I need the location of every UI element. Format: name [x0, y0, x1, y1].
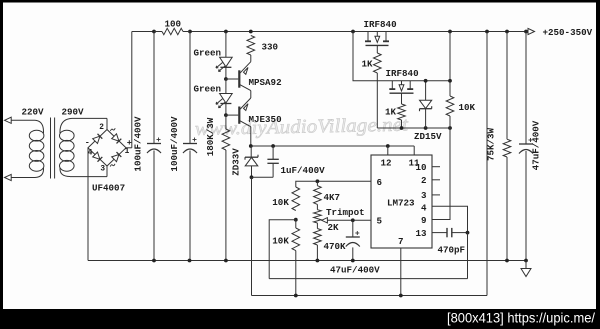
svg-text:1: 1 [125, 148, 130, 156]
wire ground rail [88, 260, 526, 262]
resistor 10K (right) [446, 96, 454, 116]
wire pin 12 stub [387, 146, 389, 155]
wire secondary-bottom to bridge [70, 176, 107, 178]
svg-text:7: 7 [398, 236, 404, 247]
svg-text:5: 5 [377, 216, 383, 227]
wire node to 180K [225, 115, 227, 129]
node 10K-lower bottom [294, 294, 298, 298]
svg-text:10K: 10K [272, 197, 289, 208]
svg-text:LM723: LM723 [387, 197, 415, 208]
resistor 75K/3W [502, 138, 504, 140]
svg-text:3: 3 [100, 166, 105, 174]
svg-text:100uF/400V: 100uF/400V [169, 116, 180, 172]
transformer T1 primary winding (220V) [29, 130, 44, 141]
node 10K bottom [448, 126, 452, 130]
svg-text:290V: 290V [62, 107, 85, 118]
resistor 1K (M1 gate) [374, 53, 382, 73]
svg-text:1K: 1K [362, 59, 374, 70]
wire 180K to ground rail [225, 150, 227, 261]
ground symbol [525, 261, 527, 269]
svg-text:47uF/400V: 47uF/400V [531, 120, 542, 170]
wire feedback drop x467 [467, 233, 469, 279]
resistor 180K/3W [222, 129, 230, 150]
bridge diode D2 (top-right) [112, 134, 119, 141]
svg-text:9: 9 [421, 215, 427, 226]
zener ZD15V [425, 81, 427, 101]
node 10K junction [294, 218, 298, 222]
svg-text:+250-350V: +250-350V [543, 27, 593, 38]
pin 3 stub [432, 194, 440, 196]
capacitor C5 470pF [432, 232, 447, 234]
resistor R 10K lower [292, 228, 300, 251]
svg-text:3: 3 [421, 190, 427, 201]
node 1K#2 bottom [400, 126, 404, 130]
svg-text:MPSA92: MPSA92 [249, 77, 282, 88]
node 4K7 top [316, 179, 320, 183]
wire base MJE350 [226, 114, 238, 116]
wire MPSA92 collector to MJE350 emitter [250, 91, 252, 98]
svg-text:[800x413] https://upic.me/: [800x413] https://upic.me/ [447, 310, 595, 326]
svg-text:4K7: 4K7 [324, 192, 341, 203]
wire pin 11 drop [413, 146, 415, 155]
svg-text:4: 4 [421, 202, 427, 213]
svg-text:UF4007: UF4007 [92, 183, 125, 194]
svg-text:10K: 10K [459, 102, 476, 113]
mosfet M2 IRF840 [391, 81, 393, 89]
svg-text:2: 2 [421, 175, 427, 186]
transistor Q2 MJE350 [238, 107, 240, 124]
wire 10K junction left-down [269, 220, 296, 279]
wire secondary-top to bridge [72, 117, 107, 119]
wire zd33 node to 1uF [252, 176, 274, 178]
LED D6 Green [220, 94, 233, 104]
node pin4/470pF [466, 231, 470, 235]
node dots on top rail [152, 30, 156, 34]
node LED2/MJE350 base [224, 113, 228, 117]
svg-text:470K: 470K [324, 241, 347, 252]
svg-text:180K/3W: 180K/3W [205, 117, 216, 156]
bridge diode D3 (bottom-left) [93, 152, 100, 159]
wire ZD33V chain to bottom loop [251, 177, 253, 295]
transformer T1 primary lead arrow (mains top) [11, 119, 35, 121]
svg-text:10K: 10K [272, 236, 289, 247]
zener ZD33V [250, 146, 252, 157]
transistor Q1 MPSA92 [238, 70, 240, 87]
svg-text:Trimpot: Trimpot [326, 207, 365, 218]
bridge diode D1 (top-left) [93, 136, 100, 143]
wire 330 to MPSA92 emitter [250, 55, 252, 62]
node ZD15V top [424, 79, 428, 83]
svg-text:4: 4 [88, 149, 93, 157]
wire LED2 to node [225, 104, 227, 116]
node pin12 tee [386, 144, 390, 148]
wire sense drop x487 [486, 32, 488, 296]
node 1uF top [271, 144, 275, 148]
svg-text:75K/3W: 75K/3W [486, 127, 497, 161]
wire rail to LED1 [225, 32, 227, 58]
svg-text:13: 13 [415, 228, 427, 239]
wire bridge plus output [126, 147, 132, 149]
IC U1 LM723 box [371, 155, 432, 248]
svg-text:100: 100 [165, 19, 182, 30]
wire LED1 to node [225, 67, 227, 79]
bridge diode D4 (bottom-right) [112, 155, 119, 162]
output arrow +250-350V [528, 28, 535, 34]
wire 10K to pin 9 [432, 116, 450, 220]
svg-text:2K: 2K [328, 222, 340, 233]
transformer T1 core [50, 118, 52, 179]
wire pin6 row [296, 181, 371, 187]
resistor 330 [247, 36, 255, 56]
resistor 1K (M2 gate) [398, 104, 406, 120]
svg-text:47uF/400V: 47uF/400V [330, 265, 380, 276]
wire 1K#2 to bottom row [401, 120, 403, 128]
node pin7 bottom [399, 294, 403, 298]
node ZD33V bottom [250, 175, 254, 179]
bottom caption bar [0, 309, 600, 329]
svg-text:12: 12 [381, 157, 392, 168]
image frame border [0, 0, 600, 3]
wire pin 4 [432, 206, 468, 232]
pin 10 stub [432, 166, 440, 168]
bridge AC mark bottom [110, 164, 115, 167]
svg-text:2: 2 [99, 124, 104, 132]
svg-text:IRF840: IRF840 [364, 19, 397, 30]
svg-text:+: + [127, 138, 132, 148]
wire gate bottom row [377, 127, 450, 129]
pin 2 stub [432, 179, 440, 181]
capacitor C3 1uF/400V [272, 146, 274, 159]
svg-text:330: 330 [262, 42, 279, 53]
svg-text:470pF: 470pF [438, 244, 466, 255]
wire bottom row y295 [252, 295, 488, 297]
svg-text:6: 6 [377, 177, 383, 188]
wire rail drop at x353 [353, 32, 450, 81]
mosfet M1 IRF840 [367, 32, 369, 42]
LED D5 Green [220, 57, 233, 67]
capacitor C6 47uF/400V (output) [525, 32, 527, 145]
pin 7 wire down [400, 248, 402, 296]
capacitor C1 100uF/400V [153, 32, 155, 144]
bridge AC mark top [110, 128, 115, 131]
svg-text:1uF/400V: 1uF/400V [281, 165, 326, 176]
capacitor C4 47uF/400V [352, 220, 354, 237]
wire x450 upper [449, 32, 451, 97]
svg-text:10: 10 [415, 162, 426, 173]
svg-text:ZD15V: ZD15V [414, 131, 442, 142]
wire bridge minus to ground rail [87, 148, 89, 261]
wire feedback row y278 [269, 278, 467, 280]
capacitor C2 100uF/400V [189, 32, 191, 144]
node LED1/MPSA92 base [224, 77, 228, 81]
svg-text:100uF/400V: 100uF/400V [133, 116, 144, 172]
svg-text:IRF840: IRF840 [386, 68, 419, 79]
transformer T1 primary lead arrow (mains bottom) [11, 177, 35, 179]
svg-text:MJE350: MJE350 [249, 114, 282, 125]
transformer T1 secondary winding (290V) [60, 130, 75, 141]
svg-text:Green: Green [194, 48, 222, 59]
bridge rectifier UF4007 outline [88, 130, 126, 167]
resistor R 10K upper [292, 187, 300, 211]
svg-text:Green: Green [194, 84, 222, 95]
node x450 gate row [448, 79, 452, 83]
wire base MPSA92 [226, 78, 238, 80]
resistor 4K7 [316, 181, 318, 185]
svg-text:1K: 1K [385, 106, 397, 117]
resistor 100 [154, 31, 162, 33]
wire 1K#1 to bottom row [376, 73, 378, 128]
node zener ZD33V top [249, 144, 253, 148]
svg-text:220V: 220V [22, 107, 45, 118]
node elco top [351, 218, 355, 222]
wire trimpot wiper to pin 5 [327, 219, 371, 221]
wire Vref row [251, 145, 414, 147]
wire node to LED2 [225, 79, 227, 94]
resistor 470K [316, 223, 318, 229]
svg-text:-: - [85, 138, 90, 148]
node ZD15V bottom [424, 126, 428, 130]
svg-text:ZD33V: ZD33V [231, 148, 242, 176]
trimpot 2K [316, 204, 318, 209]
wire top rail [132, 31, 162, 33]
wire MJE350 collector down [250, 127, 252, 146]
node dots ground rail [152, 259, 156, 263]
